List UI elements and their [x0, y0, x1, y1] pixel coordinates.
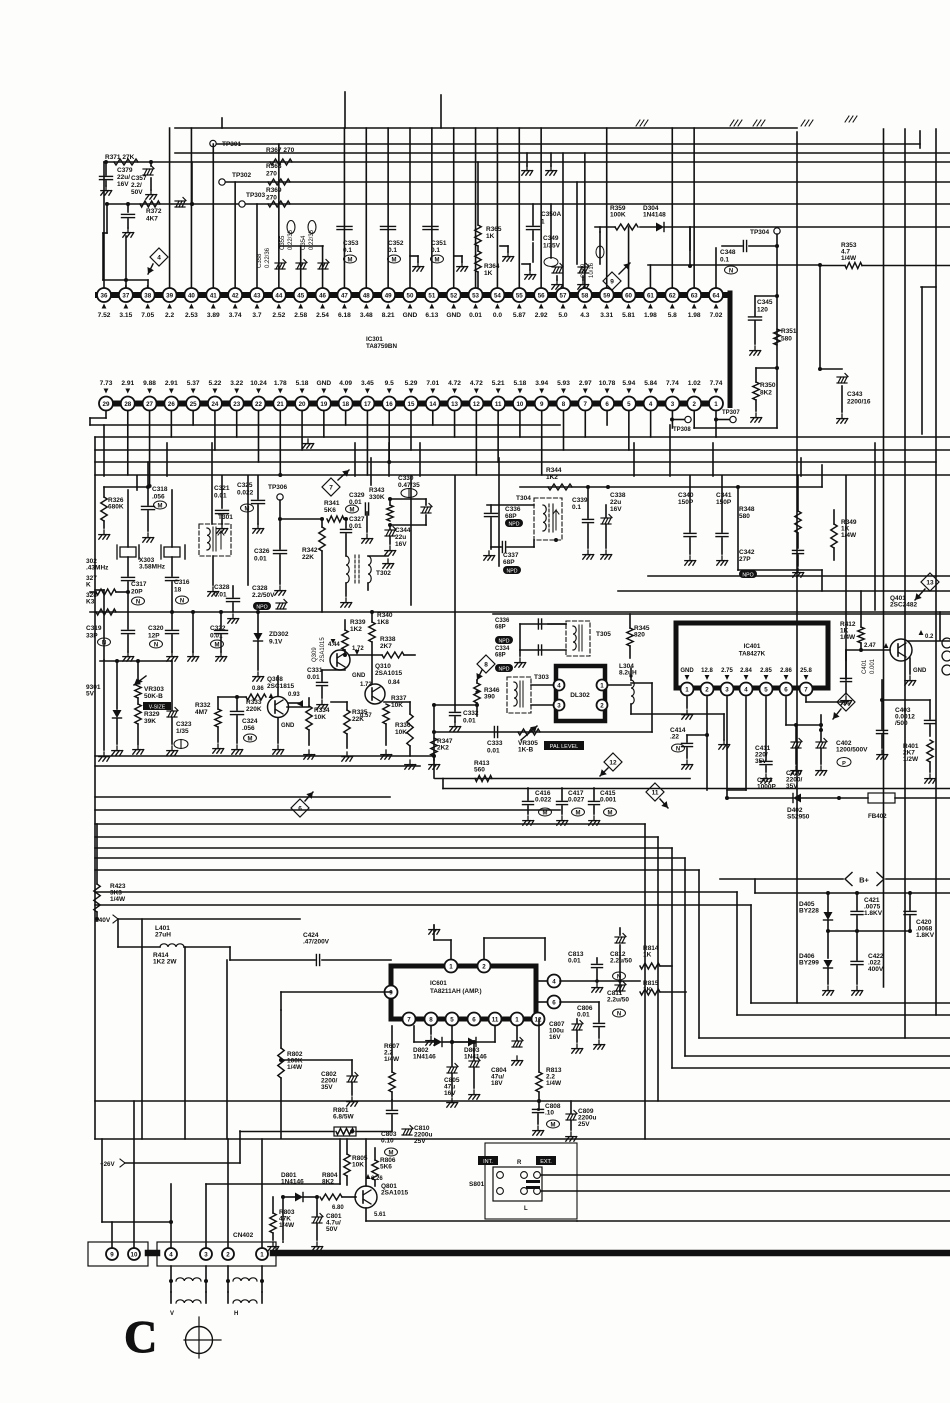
capacitor C413: [757, 697, 776, 791]
svg-text:2SA1015: 2SA1015: [375, 670, 402, 677]
svg-text:2.47: 2.47: [864, 643, 876, 649]
svg-text:22u: 22u: [610, 499, 621, 506]
resistor R348: [739, 476, 801, 548]
svg-text:5: 5: [627, 401, 631, 408]
diode D802: [413, 1026, 454, 1061]
IC401 pins 1-7: [681, 683, 813, 696]
resistor R341: [324, 500, 348, 522]
B+ rail: [720, 873, 950, 894]
svg-text:2.84: 2.84: [740, 668, 752, 674]
svg-text:C319: C319: [86, 625, 102, 632]
svg-text:C340: C340: [678, 492, 694, 499]
capacitor C342: [739, 549, 804, 578]
capacitor C338: [601, 492, 626, 559]
svg-text:9: 9: [110, 1251, 114, 1258]
svg-text:35V: 35V: [786, 783, 798, 790]
zener ZD302: [253, 610, 289, 681]
wires into CN402: [102, 919, 340, 1247]
capacitor C319: [86, 592, 135, 661]
svg-text:270: 270: [266, 195, 277, 202]
svg-text:R351: R351: [781, 328, 797, 335]
svg-text:6.26: 6.26: [371, 1176, 383, 1182]
svg-text:GND: GND: [352, 673, 366, 679]
resistor R328: [86, 592, 116, 615]
svg-text:50: 50: [407, 292, 414, 299]
svg-text:R337: R337: [391, 695, 407, 702]
resistor R803: [268, 1197, 295, 1251]
svg-text:9: 9: [540, 401, 544, 408]
svg-text:INT.: INT.: [483, 1159, 493, 1165]
svg-text:9: 9: [610, 279, 614, 286]
svg-text:C326: C326: [254, 548, 270, 555]
svg-text:10K: 10K: [352, 1162, 364, 1169]
svg-text:4.09: 4.09: [339, 380, 352, 387]
svg-text:0.027: 0.027: [568, 797, 585, 804]
switch S801 outer box: [469, 1143, 577, 1219]
svg-text:2.85: 2.85: [760, 668, 772, 674]
svg-text:0.86: 0.86: [252, 686, 264, 692]
svg-text:7.73: 7.73: [100, 380, 113, 387]
svg-text:5.81: 5.81: [622, 312, 635, 319]
svg-text:2.2/50V: 2.2/50V: [252, 592, 275, 599]
zener D301: [86, 659, 172, 755]
resistor R326: [99, 487, 124, 539]
capacitor C340: [678, 476, 696, 565]
svg-text:6.8/5W: 6.8/5W: [333, 1114, 354, 1121]
svg-text:35V: 35V: [321, 1084, 333, 1091]
resistor R414: [153, 952, 177, 966]
svg-text:1K2 2W: 1K2 2W: [153, 959, 177, 966]
trim capacitor pin11: [512, 1026, 523, 1065]
svg-text:R: R: [517, 1160, 522, 1166]
wire long mid verticals: [99, 425, 875, 761]
svg-text:N: N: [617, 1011, 621, 1017]
svg-text:1K: 1K: [643, 952, 652, 959]
svg-text:6: 6: [472, 1016, 476, 1023]
svg-text:46: 46: [319, 292, 326, 299]
svg-text:43: 43: [254, 292, 261, 299]
capacitor C331: [307, 667, 328, 709]
svg-text:C357: C357: [131, 175, 147, 182]
capacitor C404: [877, 680, 931, 759]
svg-text:C323: C323: [176, 721, 192, 728]
resistor R423: [94, 824, 126, 921]
svg-text:R329: R329: [144, 711, 160, 718]
svg-text:9.88: 9.88: [143, 380, 156, 387]
variable resistor VR303: [134, 661, 171, 711]
svg-text:T304: T304: [516, 495, 531, 502]
svg-text:5.22: 5.22: [209, 380, 222, 387]
wire rails below IC301: [90, 425, 950, 475]
IC401 TA8427K: [676, 623, 828, 688]
svg-text:2.86: 2.86: [780, 668, 792, 674]
svg-text:68P: 68P: [505, 513, 517, 520]
svg-text:35V: 35V: [755, 758, 767, 765]
svg-text:5.94: 5.94: [622, 380, 635, 387]
IC301 top pin bus: [98, 293, 730, 406]
capacitor C379: [100, 162, 157, 199]
transistor Q308: [252, 676, 303, 754]
svg-text:51: 51: [428, 292, 435, 299]
svg-text:ZD302: ZD302: [269, 631, 289, 638]
svg-text:5V: 5V: [86, 691, 95, 698]
diode D801: [281, 1172, 319, 1202]
svg-text:2SC1815: 2SC1815: [267, 683, 294, 690]
svg-text:270: 270: [266, 171, 277, 178]
resistor R815: [640, 980, 686, 995]
svg-text:680K: 680K: [108, 504, 124, 511]
svg-text:0.001: 0.001: [600, 797, 617, 804]
svg-text:TP304: TP304: [750, 229, 770, 236]
svg-text:0.1: 0.1: [720, 257, 729, 264]
transistor Q401: [846, 595, 950, 685]
capacitor C813: [568, 951, 603, 992]
svg-text:TP301: TP301: [222, 141, 242, 148]
wire B+ links: [828, 930, 857, 932]
svg-text:22u/: 22u/: [117, 174, 130, 181]
connector CN402: [157, 1232, 276, 1266]
resistor R345: [627, 614, 650, 658]
rails y756 y766: [95, 754, 436, 766]
svg-text:R372: R372: [146, 208, 162, 215]
capacitor C329: [346, 492, 373, 543]
capacitor C804: [450, 1040, 507, 1099]
capacitor C809: [566, 1101, 597, 1141]
capacitor C810: [402, 1125, 432, 1145]
wire bottom right nested rails: [95, 1003, 950, 1139]
svg-text:0.01: 0.01: [568, 958, 581, 965]
svg-text:3.58MHz: 3.58MHz: [139, 564, 166, 571]
svg-text:56: 56: [538, 292, 545, 299]
svg-text:C355: C355: [280, 235, 286, 250]
page letter C: [124, 1311, 157, 1362]
capacitor C320: [148, 612, 179, 661]
svg-text:C341: C341: [716, 492, 732, 499]
svg-text:N: N: [136, 599, 140, 605]
svg-text:5.18: 5.18: [514, 380, 527, 387]
svg-text:C336: C336: [495, 618, 510, 624]
diode D803: [452, 1026, 495, 1061]
svg-text:TP306: TP306: [268, 484, 288, 491]
svg-text:R364: R364: [484, 263, 500, 270]
svg-text:45: 45: [297, 292, 304, 299]
capacitor C424: [230, 932, 391, 966]
resistor R359: [610, 205, 638, 230]
fuse FB402: [868, 793, 950, 820]
svg-text:6.18: 6.18: [338, 312, 351, 319]
capacitor C325: [237, 476, 265, 533]
resistor R412: [840, 591, 864, 650]
svg-text:7.52: 7.52: [98, 312, 111, 319]
svg-text:2K2: 2K2: [437, 745, 449, 752]
svg-text:22u: 22u: [395, 534, 406, 541]
svg-text:7: 7: [407, 1016, 411, 1023]
svg-text:4.72: 4.72: [470, 380, 483, 387]
svg-text:3: 3: [671, 401, 675, 408]
svg-text:27: 27: [146, 401, 153, 408]
svg-text:C327: C327: [349, 516, 365, 523]
capacitor C401: [841, 650, 877, 705]
svg-text:2.2u/50: 2.2u/50: [610, 958, 632, 965]
svg-text:4: 4: [169, 1251, 173, 1258]
svg-text:L: L: [524, 1206, 528, 1212]
svg-text:M: M: [435, 257, 440, 263]
resistor R346: [474, 680, 500, 716]
svg-text:DL302: DL302: [570, 692, 590, 699]
svg-text:38: 38: [144, 292, 151, 299]
svg-text:3.89: 3.89: [207, 312, 220, 319]
resistor R350: [751, 366, 779, 422]
svg-text:V-SIZE: V-SIZE: [149, 705, 166, 711]
svg-text:7: 7: [329, 485, 333, 492]
capacitor C344: [385, 525, 411, 555]
svg-text:2SA1015: 2SA1015: [381, 1190, 408, 1197]
svg-text:R340: R340: [377, 612, 393, 619]
svg-text:16: 16: [386, 401, 393, 408]
svg-text:7.05: 7.05: [141, 312, 154, 319]
svg-text:220K: 220K: [246, 706, 262, 713]
svg-text:6: 6: [784, 686, 788, 693]
resistor R401: [903, 740, 936, 783]
svg-text:10K: 10K: [391, 702, 403, 709]
svg-text:5.87: 5.87: [513, 312, 526, 319]
svg-text:5: 5: [764, 686, 768, 693]
svg-text:IC601: IC601: [430, 980, 447, 987]
svg-text:4: 4: [744, 686, 748, 693]
test point TP302: [219, 172, 252, 185]
svg-text:.056: .056: [152, 494, 165, 501]
svg-text:C353: C353: [343, 240, 359, 247]
svg-text:C328: C328: [214, 584, 230, 591]
svg-text:0.2: 0.2: [925, 634, 934, 640]
svg-text:10: 10: [516, 401, 523, 408]
svg-text:C342: C342: [739, 549, 755, 556]
svg-text:50K-B: 50K-B: [144, 693, 163, 700]
capacitor C336: [484, 505, 534, 560]
svg-text:0.10: 0.10: [381, 1138, 394, 1145]
resistor R343: [369, 487, 393, 527]
svg-text:3.45: 3.45: [361, 380, 374, 387]
svg-text:C325: C325: [237, 482, 253, 489]
svg-text:0.1: 0.1: [572, 504, 581, 511]
svg-text:C379: C379: [117, 167, 133, 174]
svg-text:0.1: 0.1: [343, 247, 352, 254]
svg-text:1: 1: [541, 219, 545, 226]
svg-text:R338: R338: [380, 636, 396, 643]
svg-text:1.78: 1.78: [274, 380, 287, 387]
wire pin60 link: [595, 227, 615, 232]
svg-text:22K: 22K: [352, 716, 364, 723]
capacitor C811: [607, 982, 629, 1018]
test point TP304: [750, 228, 780, 368]
svg-text:1K2: 1K2: [350, 626, 362, 633]
capacitor C417: [557, 788, 585, 825]
diamond flag 7: [322, 470, 349, 496]
svg-text:0.22/36: 0.22/36: [265, 247, 271, 268]
svg-text:C344: C344: [395, 527, 411, 534]
svg-text:1.8KV: 1.8KV: [864, 910, 883, 917]
svg-text:M: M: [215, 642, 220, 648]
svg-text:560: 560: [474, 767, 485, 774]
svg-text:CN402: CN402: [233, 1232, 254, 1239]
diamond flag 8: [476, 655, 495, 680]
diode D405: [799, 891, 833, 958]
capacitor C328b: [252, 585, 275, 610]
svg-text:C332: C332: [463, 710, 479, 717]
svg-text:R334: R334: [314, 707, 330, 714]
svg-text:2.2: 2.2: [165, 312, 174, 319]
svg-text:1.98: 1.98: [688, 312, 701, 319]
svg-text:3.15: 3.15: [119, 312, 132, 319]
svg-text:5K6: 5K6: [380, 1164, 392, 1171]
svg-text:R350: R350: [760, 382, 776, 389]
svg-text:R339: R339: [350, 619, 366, 626]
svg-text:TP302: TP302: [232, 172, 252, 179]
capacitor C328a: [214, 584, 240, 623]
svg-text:0.01: 0.01: [577, 1012, 590, 1019]
rail mid-right y265: [648, 263, 822, 267]
svg-text:18: 18: [342, 401, 349, 408]
svg-text:1.8KV: 1.8KV: [916, 932, 935, 939]
crystal X303: [139, 490, 185, 576]
transformer T301: [199, 514, 233, 596]
resistor R335: [342, 702, 368, 761]
capacitor C352: [381, 226, 404, 263]
svg-text:BY299: BY299: [799, 960, 819, 967]
capacitor C803: [381, 1100, 398, 1156]
capacitor C422: [851, 931, 884, 995]
svg-text:T301: T301: [218, 514, 233, 521]
wire bus corner verticals: [645, 824, 751, 1139]
svg-text:11: 11: [495, 401, 502, 408]
svg-text:1.02: 1.02: [688, 380, 701, 387]
resistor R814: [640, 945, 672, 969]
svg-text:NPO: NPO: [742, 572, 753, 578]
svg-text:GND: GND: [403, 312, 418, 319]
svg-text:7.02: 7.02: [710, 312, 723, 319]
wire top rails: [104, 128, 950, 204]
switch S801 contacts: [493, 1160, 542, 1212]
svg-text:S801: S801: [469, 1181, 485, 1188]
svg-text:NPD: NPD: [499, 666, 510, 672]
svg-text:NPO: NPO: [256, 604, 267, 610]
svg-text:1K: 1K: [486, 233, 495, 240]
svg-text:57: 57: [560, 292, 567, 299]
svg-text:50V: 50V: [326, 1226, 338, 1233]
svg-text:0.01: 0.01: [463, 718, 476, 725]
svg-text:1/4W: 1/4W: [110, 896, 126, 903]
svg-text:C359: C359: [581, 263, 587, 278]
svg-text:0.01: 0.01: [307, 674, 320, 681]
svg-text:24: 24: [211, 401, 218, 408]
capacitor C332: [432, 703, 479, 731]
transistor Q801: [332, 1174, 408, 1218]
svg-text:C329: C329: [349, 492, 365, 499]
diamond flag 6: [291, 792, 313, 817]
svg-text:15: 15: [408, 401, 415, 408]
svg-text:C351: C351: [431, 240, 447, 247]
svg-text:4: 4: [649, 401, 653, 408]
svg-text:.22: .22: [670, 734, 679, 741]
svg-text:R341: R341: [324, 500, 340, 507]
svg-text:TA8211AH (AMP.): TA8211AH (AMP.): [430, 988, 482, 995]
svg-text:2.91: 2.91: [121, 380, 134, 387]
resistor R342: [302, 517, 325, 612]
diamond flag 12: [600, 753, 622, 776]
svg-text:1/35V: 1/35V: [543, 243, 561, 250]
svg-text:6: 6: [298, 806, 302, 813]
capacitor C421: [851, 891, 883, 933]
svg-text:8: 8: [562, 401, 566, 408]
svg-text:40: 40: [188, 292, 195, 299]
svg-text:2: 2: [705, 686, 709, 693]
svg-text:3.22: 3.22: [230, 380, 243, 387]
svg-text:1/4W: 1/4W: [841, 532, 857, 539]
svg-text:39K: 39K: [144, 718, 156, 725]
svg-text:61: 61: [647, 292, 654, 299]
svg-text:2200/16: 2200/16: [847, 399, 871, 406]
capacitor C327: [341, 516, 365, 556]
svg-text:1: 1: [685, 686, 689, 693]
capacitor C341: [716, 476, 732, 565]
capacitor C330: [390, 475, 432, 525]
svg-text:M: M: [348, 257, 353, 263]
svg-text:Q308: Q308: [267, 676, 283, 683]
ground stubs below rail: [522, 153, 557, 175]
svg-text:T305: T305: [596, 631, 611, 638]
resistor R365: [475, 162, 502, 246]
wires Q801: [366, 1139, 577, 1221]
INT tag: [478, 1156, 498, 1165]
svg-text:55: 55: [516, 292, 523, 299]
svg-text:NPD: NPD: [499, 638, 510, 644]
svg-text:K3: K3: [86, 599, 95, 606]
svg-text:C338: C338: [610, 492, 626, 499]
svg-text:6: 6: [552, 999, 556, 1006]
IC601 top pin wires: [429, 925, 545, 960]
svg-text:TP303: TP303: [246, 192, 266, 199]
hatch marks right top: [845, 116, 857, 122]
svg-text:2.97: 2.97: [579, 380, 592, 387]
svg-text:TA8427K: TA8427K: [739, 651, 766, 658]
svg-text:820: 820: [634, 632, 645, 639]
IC401 pin1 ground: [682, 697, 693, 719]
capacitor C403: [895, 700, 936, 736]
diamond flag 11: [646, 783, 668, 808]
svg-text:7.01: 7.01: [426, 380, 439, 387]
svg-text:53: 53: [472, 292, 479, 299]
svg-text:3.94: 3.94: [535, 380, 548, 387]
svg-text:1.72: 1.72: [360, 682, 372, 688]
svg-text:5.29: 5.29: [405, 380, 418, 387]
svg-text:37: 37: [122, 292, 129, 299]
svg-text:150P: 150P: [716, 499, 732, 506]
trim capacitors near pins 56-57: [552, 264, 589, 290]
wire left vertical rails: [94, 437, 96, 1139]
svg-text:48: 48: [363, 292, 370, 299]
svg-text:+26V: +26V: [100, 1161, 115, 1168]
resistor R805: [344, 1139, 368, 1185]
capacitor C339: [572, 487, 594, 559]
svg-text:2: 2: [600, 702, 604, 709]
capacitor C807: [549, 1019, 583, 1053]
svg-text:1: 1: [449, 963, 453, 970]
capacitor C334: [495, 646, 513, 672]
svg-text:3: 3: [204, 1251, 208, 1258]
svg-text:5.93: 5.93: [557, 380, 570, 387]
svg-text:4: 4: [157, 255, 161, 262]
svg-text:PAL LEVEL: PAL LEVEL: [550, 744, 578, 750]
